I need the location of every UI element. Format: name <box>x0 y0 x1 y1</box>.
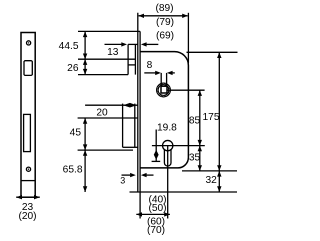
latch front: top edge <box>128 43 138 45</box>
svg-text:(70): (70) <box>147 225 165 236</box>
plate front right edge (ext to bottom dims) <box>139 31 141 218</box>
dim 13 right part <box>146 43 158 45</box>
screw hole top <box>27 41 31 45</box>
dim (89) line <box>139 15 188 17</box>
spindle knurled ring <box>157 83 171 97</box>
svg-text:20: 20 <box>96 108 108 119</box>
ext case top right <box>187 51 238 53</box>
ext 8 right <box>166 73 168 86</box>
spindle square <box>161 86 167 93</box>
latch front: left edge <box>127 44 129 74</box>
svg-text:19.8: 19.8 <box>157 122 177 133</box>
svg-text:(20): (20) <box>18 211 36 222</box>
dim 175 <box>218 52 220 171</box>
dim 3 left part <box>122 174 131 176</box>
dim 65.8 <box>84 150 86 192</box>
case right edge ext up (89 ext) <box>187 13 189 63</box>
svg-text:44.5: 44.5 <box>59 41 79 52</box>
dim 23 right arrow <box>34 195 40 199</box>
deadbolt top + ext 45 <box>78 117 138 119</box>
tick 19.8 bottom <box>152 160 161 162</box>
cylinder lobe <box>164 150 171 166</box>
dim 20 line <box>85 104 138 106</box>
ext bottom long <box>130 191 238 193</box>
dim 45 <box>84 118 86 150</box>
svg-text:(50): (50) <box>148 203 166 214</box>
dim 26 <box>84 59 86 74</box>
faceplate side view outline <box>21 33 35 198</box>
deadbolt inner vertical <box>134 104 136 148</box>
bottom backset dim <box>136 213 170 215</box>
latch cutout <box>24 61 32 76</box>
svg-text:(69): (69) <box>156 30 174 41</box>
svg-text:3: 3 <box>120 176 125 186</box>
svg-text:13: 13 <box>107 47 119 58</box>
ext 35/32 <box>182 170 237 172</box>
ext 45/65.8 <box>78 149 133 151</box>
dim 23 left arrow <box>16 195 22 199</box>
svg-text:32: 32 <box>205 175 217 186</box>
dim 19.8 diamond arrows <box>154 150 159 160</box>
svg-text:35: 35 <box>189 153 201 164</box>
dim 44.5 <box>84 31 86 59</box>
ext 8 left <box>160 73 162 86</box>
plate front top edge <box>138 30 140 32</box>
svg-text:65.8: 65.8 <box>63 164 83 175</box>
dim 32 <box>218 171 220 192</box>
dim 3 right part <box>146 174 154 176</box>
deadbolt cutout <box>24 114 31 151</box>
cylinder vertical center/ext line <box>167 146 169 219</box>
svg-text:85: 85 <box>189 116 201 127</box>
svg-text:26: 26 <box>67 63 79 74</box>
deadbolt bottom <box>123 146 138 148</box>
latch front: inner vertical <box>134 44 136 74</box>
latch bottom + ext 44.5/26 <box>78 58 135 60</box>
latch inner horizontal <box>128 64 135 66</box>
ext 26 bottom <box>78 74 128 76</box>
svg-text:(79): (79) <box>156 17 174 28</box>
screw hole bottom <box>26 167 30 171</box>
dim 19.8 vertical line <box>155 130 157 162</box>
dim 23 line <box>16 196 40 198</box>
plate front left edge (also ext for 89) <box>137 13 139 192</box>
ext 20 left / deadbolt left edge <box>122 104 124 148</box>
dim 35 <box>199 146 201 171</box>
svg-text:175: 175 <box>203 112 220 123</box>
cylinder circle <box>163 140 173 150</box>
dim 13 left part <box>105 43 123 45</box>
faceplate inner bottom line <box>21 180 35 182</box>
ext line plate top <box>78 30 138 32</box>
svg-text:(89): (89) <box>155 3 173 14</box>
dim 8 <box>144 72 159 74</box>
dim 20 diamond <box>123 103 136 108</box>
dim 85 <box>199 90 201 145</box>
case outline <box>140 52 188 168</box>
cylinder horizontal center line <box>152 145 205 147</box>
svg-text:8: 8 <box>147 60 153 71</box>
ext spindle center right <box>167 89 204 91</box>
svg-text:45: 45 <box>70 127 82 138</box>
